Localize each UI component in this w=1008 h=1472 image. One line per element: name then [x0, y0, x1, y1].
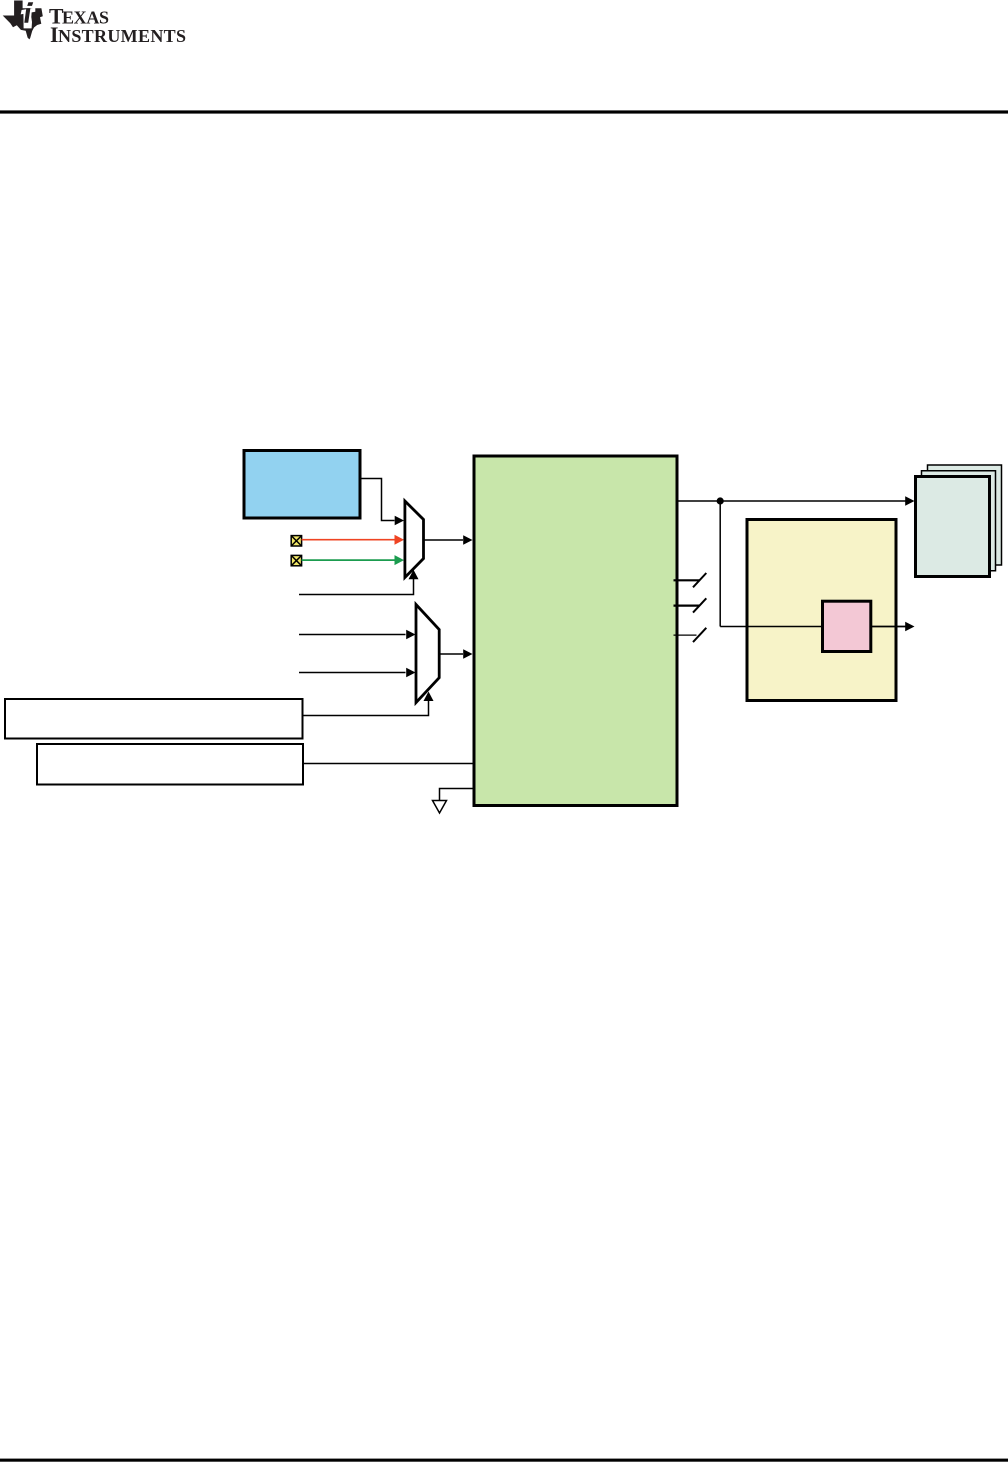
ground symbol	[433, 789, 473, 814]
wire blue box to mux M1 input	[362, 479, 395, 521]
wire mux M2 output to green block	[440, 653, 463, 655]
mux M1	[405, 501, 424, 578]
block B2 green (main logic block)	[474, 456, 677, 806]
TI logotype TEXAS	[49, 4, 186, 47]
bus output 3 with slash	[674, 628, 707, 642]
TI logo bug (Texas map with ti)	[3, 1, 43, 40]
node X2 (yellow crossed box, external input 2)	[291, 555, 301, 565]
bus output 2 with slash	[674, 598, 707, 612]
pages stack back sheet	[928, 465, 1002, 565]
junction dot	[717, 497, 724, 504]
svg-text:NSTRUMENTS: NSTRUMENTS	[58, 26, 186, 46]
pages stack front sheet	[916, 477, 990, 577]
footer rule	[0, 1459, 1008, 1462]
wire junction down	[719, 501, 721, 627]
wire X2 to mux M1 (green)	[302, 559, 395, 561]
wire mux M2 input 2	[299, 672, 406, 674]
wire box B4 to green block	[304, 763, 473, 765]
mux M2	[416, 605, 439, 703]
wire green block top output to pages	[679, 500, 906, 502]
wire X1 to mux M1 (red)	[302, 539, 395, 541]
bus output 1 with slash	[674, 573, 707, 587]
svg-text:EXAS: EXAS	[62, 7, 109, 27]
header rule	[0, 110, 1008, 113]
wire segment through pink block	[870, 626, 906, 628]
node X1 (yellow crossed box, external input 1)	[291, 536, 301, 546]
wire mux M1 output to green block	[425, 539, 464, 541]
block B1 blue (oscillator block)	[244, 451, 360, 519]
block B4 white (register box 2)	[37, 744, 303, 785]
block B5 yellow (output module)	[747, 520, 896, 701]
wire mux M1 select	[299, 579, 414, 595]
wire mux M2 input 1	[299, 634, 406, 636]
wire junction through yellow block to output	[720, 626, 905, 628]
wire box B3 to mux M2 select	[304, 701, 429, 716]
block B3 white (register box 1)	[5, 699, 303, 739]
pages stack middle sheet	[922, 471, 996, 571]
block B6 pink (sub-module)	[823, 601, 871, 651]
